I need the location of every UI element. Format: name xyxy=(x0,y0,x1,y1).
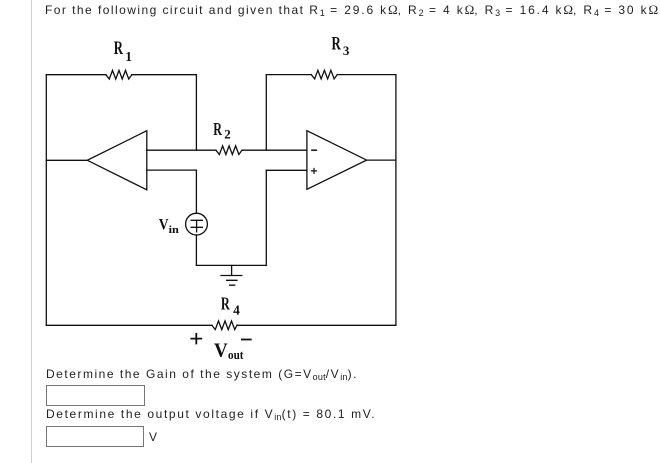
op-amp U2 xyxy=(307,131,367,190)
svg-text:R: R xyxy=(332,35,342,55)
svg-text:2: 2 xyxy=(224,126,231,141)
svg-text:1: 1 xyxy=(125,49,132,64)
svg-text:V: V xyxy=(159,217,169,234)
wire: right loop top (R3 top wire) xyxy=(266,74,396,76)
question 2 text xyxy=(46,407,376,421)
pin: U2 non-inverting input marker xyxy=(312,169,317,174)
wire: Vin bottom lead xyxy=(195,235,197,266)
wire: U2 non-inverting input xyxy=(266,169,307,171)
wire: U1 output to left vertical xyxy=(46,159,87,161)
wire: left loop top (R1 top wire) xyxy=(46,74,196,76)
answer box 2 xyxy=(46,426,144,447)
label Vout plus terminal xyxy=(191,334,201,344)
wire: U2 output xyxy=(367,159,396,161)
op-amp U1 xyxy=(87,131,147,190)
resistor R1 xyxy=(106,70,132,79)
label Vout minus terminal xyxy=(242,339,251,341)
wire: bottom rail (Vout through R4) xyxy=(46,324,396,326)
wire: left loop right vertical (R1 to inverting input) xyxy=(195,75,197,151)
wire: middle bottom horizontal xyxy=(196,264,266,266)
svg-text:3: 3 xyxy=(343,43,350,58)
wire: U1 upper input / R2 wire xyxy=(147,149,307,151)
wire: right loop left vertical (non-inverting branch) xyxy=(265,170,267,265)
label R1 xyxy=(114,39,133,64)
wire: right loop left vertical upper (R3 to inverting node) xyxy=(265,75,267,151)
svg-text:V: V xyxy=(214,340,228,361)
svg-text:in: in xyxy=(169,224,179,236)
left pane divider line xyxy=(31,0,33,463)
label R3 xyxy=(332,35,350,58)
svg-text:R: R xyxy=(213,119,222,139)
svg-text:out: out xyxy=(228,347,244,362)
label Vin xyxy=(159,217,179,237)
label Vout xyxy=(214,340,244,362)
ground xyxy=(221,265,242,285)
wire: U1 lower input xyxy=(147,169,197,171)
wire: left outer vertical xyxy=(45,75,47,326)
svg-text:4: 4 xyxy=(233,303,240,318)
pin: U2 inverting input marker xyxy=(312,149,317,151)
label R4 xyxy=(221,293,240,317)
resistor R3 xyxy=(311,70,337,79)
question 1 text xyxy=(46,367,358,381)
wire: right outer vertical xyxy=(395,75,397,326)
answer box 1 xyxy=(46,385,145,406)
svg-text:R: R xyxy=(221,293,230,313)
wire: Vin top lead xyxy=(195,170,197,213)
resistor R4 xyxy=(212,321,237,330)
problem statement text xyxy=(45,3,658,17)
resistor R2 xyxy=(216,146,242,155)
unit label V xyxy=(149,430,159,444)
source Vin xyxy=(186,213,208,235)
label R2 xyxy=(213,119,231,141)
svg-text:R: R xyxy=(114,39,124,59)
